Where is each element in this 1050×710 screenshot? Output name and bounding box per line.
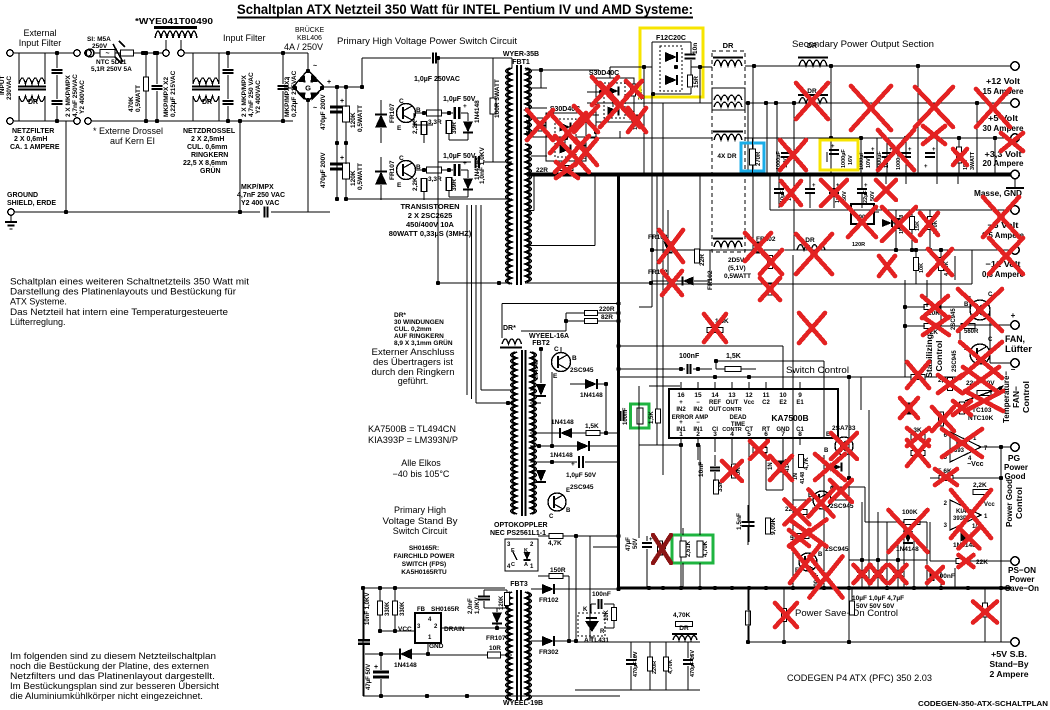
wire: [940, 271, 942, 284]
svg-text:2SC945: 2SC945: [952, 350, 958, 372]
wire: [699, 174, 701, 250]
svg-text:0,5WATT: 0,5WATT: [724, 273, 751, 280]
wire: [423, 135, 425, 143]
wire: [587, 91, 599, 93]
resistor: [782, 609, 787, 622]
wire: [687, 666, 689, 690]
junction: [155, 119, 159, 123]
resistor: [911, 451, 925, 456]
wire: [336, 143, 338, 162]
junction: [616, 344, 620, 348]
svg-text:450/400V 10A: 450/400V 10A: [406, 220, 455, 229]
wire: [984, 588, 986, 603]
diode: [375, 172, 387, 185]
wire: [536, 395, 546, 397]
svg-text:C2: C2: [762, 400, 770, 406]
wire: [897, 577, 899, 588]
svg-text:FR107: FR107: [389, 103, 396, 123]
junction: [999, 586, 1003, 590]
resistor: [695, 249, 700, 263]
svg-text:TRANSISTOREN: TRANSISTOREN: [400, 202, 459, 211]
connector circle: [74, 50, 80, 56]
junction: [447, 111, 451, 115]
wire: [56, 53, 58, 68]
junction: [993, 136, 997, 140]
junction: [647, 586, 651, 590]
wire: [841, 448, 850, 453]
wire: [714, 472, 716, 481]
junction: [747, 586, 751, 590]
wire: [799, 438, 801, 445]
output terminal: [1011, 206, 1019, 214]
svg-text:150R: 150R: [550, 567, 566, 574]
svg-text:100nF: 100nF: [592, 591, 611, 598]
resistor: [983, 603, 988, 617]
output terminal: [1011, 321, 1019, 329]
wire: [841, 463, 843, 472]
svg-text:0,22µF 215VAC: 0,22µF 215VAC: [170, 70, 177, 117]
wire: [639, 91, 652, 93]
wire: [10, 215, 12, 222]
wire: [656, 307, 658, 318]
red X deletion mark: [574, 106, 598, 132]
junction: [822, 586, 826, 590]
svg-text:noch die Bestückung der Platin: noch die Bestückung der Platine, des ext…: [10, 661, 209, 671]
red X deletion mark: [600, 83, 640, 127]
junction: [885, 586, 889, 590]
wire: [610, 66, 620, 68]
electrolytic capacitor: [893, 572, 903, 576]
junction: [335, 85, 339, 89]
wire: [868, 530, 870, 588]
svg-text:2 X 2,5mH: 2 X 2,5mH: [191, 136, 224, 143]
wire: [903, 542, 913, 544]
wire: [752, 138, 754, 149]
resistor: [688, 75, 693, 87]
resistor: [939, 258, 944, 271]
svg-text:100nF: 100nF: [679, 353, 700, 360]
svg-text:Y2 400VAC: Y2 400VAC: [79, 80, 86, 114]
red X deletion mark: [785, 500, 810, 525]
svg-text:50V 50V 50V: 50V 50V 50V: [856, 603, 895, 610]
junction: [747, 375, 751, 379]
svg-text:2 X MKP/MPX: 2 X MKP/MPX: [241, 74, 248, 117]
svg-text:Externer Anschluss: Externer Anschluss: [372, 347, 456, 357]
svg-text:Y2 400 VAC: Y2 400 VAC: [241, 200, 279, 207]
component box: [415, 613, 441, 643]
wire: [778, 174, 780, 189]
red X deletion mark: [722, 461, 742, 481]
wire: [554, 495, 563, 500]
wire: [639, 66, 712, 68]
wire: [8, 225, 15, 227]
svg-text:CODEGEN-350-ATX-SCHALTPLAN: CODEGEN-350-ATX-SCHALTPLAN: [918, 701, 1048, 708]
wire: [809, 193, 811, 208]
wire: [731, 445, 733, 463]
wire: [831, 486, 865, 488]
svg-text:1N4148: 1N4148: [580, 392, 603, 399]
red X deletion mark: [976, 89, 1010, 127]
svg-text:10V: 10V: [866, 158, 872, 168]
wire: [709, 250, 711, 281]
svg-text:Primary High Voltage Power Swi: Primary High Voltage Power Switch Circui…: [337, 36, 518, 46]
wire: [977, 356, 986, 361]
wire: [271, 211, 330, 213]
red X deletion mark: [780, 140, 806, 170]
wire: [783, 588, 785, 609]
wire: [940, 568, 942, 588]
svg-text:A TL431: A TL431: [584, 637, 609, 644]
wire: [564, 132, 566, 145]
component box: [660, 46, 682, 91]
wire: [971, 250, 973, 284]
wire: [769, 174, 771, 210]
junction: [226, 119, 230, 123]
svg-text:GROUND: GROUND: [7, 192, 38, 199]
svg-text:1,5K: 1,5K: [585, 423, 599, 430]
svg-text:100R 3WATT: 100R 3WATT: [494, 79, 501, 118]
red X deletion mark: [810, 557, 843, 598]
wire: [466, 205, 468, 395]
junction: [616, 367, 620, 371]
wire: [895, 228, 897, 250]
wire: [572, 432, 586, 434]
red X deletion mark: [555, 136, 589, 172]
wire: [957, 174, 959, 184]
junction: [379, 652, 383, 656]
wire: [649, 642, 651, 657]
wire: [755, 361, 757, 369]
junction: [698, 65, 702, 69]
capacitor: [598, 599, 601, 609]
svg-text:80WATT 0,33µS (3MHZ): 80WATT 0,33µS (3MHZ): [389, 229, 472, 238]
wire: [690, 42, 692, 54]
svg-text:IN2: IN2: [676, 407, 686, 413]
wire: [619, 345, 784, 347]
wire: [530, 389, 536, 391]
capacitor: [358, 640, 370, 644]
resistor: [928, 217, 933, 230]
wire: [380, 630, 416, 632]
junction: [661, 586, 665, 590]
red X deletion mark: [653, 535, 671, 563]
wire: [793, 174, 795, 250]
wire: [892, 227, 900, 229]
wire: [680, 445, 682, 588]
wire: [869, 521, 904, 523]
red X deletion mark: [821, 180, 847, 206]
electrolytic capacitor: [925, 153, 935, 157]
wire: [613, 604, 615, 608]
wire: [930, 560, 941, 562]
svg-text:CA. 1 AMPERE: CA. 1 AMPERE: [10, 144, 60, 151]
svg-text:DR: DR: [807, 43, 817, 50]
wire: [506, 606, 508, 608]
wire: [693, 368, 712, 370]
svg-text:−Vcc: −Vcc: [967, 461, 984, 468]
red X deletion mark: [1001, 133, 1023, 151]
svg-text:4X DR: 4X DR: [717, 153, 736, 160]
svg-text:FR102: FR102: [707, 270, 714, 290]
inductor coil: [799, 98, 827, 104]
junction: [791, 586, 795, 590]
wire: [239, 121, 241, 212]
junction: [564, 136, 568, 140]
wire: [475, 205, 477, 403]
wire: [752, 174, 754, 250]
wire: [903, 530, 905, 560]
capacitor: [687, 364, 690, 374]
junction: [894, 248, 898, 252]
connector circle: [7, 50, 13, 56]
svg-text:FBT3: FBT3: [510, 581, 528, 588]
wire: [375, 114, 387, 116]
wire: [975, 560, 1011, 562]
capacitor: [710, 467, 720, 470]
svg-text:RINGKERN: RINGKERN: [191, 152, 228, 159]
resistor: [766, 518, 771, 534]
diode: [882, 219, 892, 227]
resistor: [559, 166, 573, 171]
svg-text:1,5K: 1,5K: [649, 411, 655, 424]
red X deletion mark: [745, 233, 771, 261]
inductor coil: [714, 95, 742, 100]
resistor: [768, 283, 773, 295]
junction: [847, 586, 851, 590]
red X deletion mark: [790, 520, 827, 547]
svg-text:+: +: [932, 147, 936, 153]
wire: [970, 560, 1001, 562]
wire: [525, 107, 547, 109]
svg-text:DR: DR: [28, 99, 38, 106]
svg-text:FAN,: FAN,: [1005, 334, 1025, 344]
wire: [423, 192, 425, 200]
svg-text:FBT1: FBT1: [512, 59, 530, 66]
wire: [560, 347, 562, 353]
svg-text:DR: DR: [202, 99, 212, 106]
svg-text:NTC 5D11: NTC 5D11: [96, 59, 127, 66]
diode: [905, 403, 914, 414]
wire: [399, 649, 401, 660]
wire: [565, 313, 567, 331]
svg-text:des Übertragers ist: des Übertragers ist: [373, 357, 454, 367]
resistor: [421, 122, 427, 135]
junction: [567, 639, 571, 643]
wire: [538, 575, 549, 577]
wire: [598, 320, 618, 322]
red X deletion mark: [750, 441, 768, 459]
svg-text:OPTOKOPPLER: OPTOKOPPLER: [494, 522, 548, 529]
junction: [238, 119, 242, 123]
yellow highlight box: [640, 28, 703, 97]
wire: [911, 230, 913, 250]
wire: [554, 640, 577, 642]
wire: [864, 487, 866, 522]
capacitor: [433, 53, 436, 64]
wire: [630, 666, 632, 690]
wire: [990, 362, 1011, 364]
red X deletion mark: [953, 401, 971, 415]
red X deletion mark: [527, 110, 553, 140]
svg-text:FBT2: FBT2: [532, 340, 550, 347]
junction: [55, 119, 59, 123]
junction: [916, 64, 920, 68]
svg-text:DR: DR: [679, 625, 689, 632]
wire: [715, 361, 717, 369]
wire: [500, 346, 522, 348]
wire: [646, 536, 648, 541]
wire: [330, 111, 345, 114]
wire: [940, 250, 942, 258]
svg-text:DEAD: DEAD: [729, 415, 747, 421]
wire: [403, 172, 412, 177]
connector circle: [163, 50, 169, 56]
wire: [483, 161, 512, 163]
junction: [649, 281, 653, 285]
junction: [752, 64, 756, 68]
wire: [941, 560, 956, 562]
wire: [237, 17, 693, 19]
wire: [156, 91, 158, 121]
red X deletion mark: [799, 313, 825, 343]
red X deletion mark: [704, 314, 726, 342]
wire: [227, 75, 229, 99]
wire: [793, 103, 795, 174]
capacitor: [577, 143, 586, 146]
wire: [438, 161, 471, 163]
wire: [609, 67, 611, 78]
junction: [141, 51, 145, 55]
wire: [687, 642, 689, 658]
svg-text:CONTR: CONTR: [722, 427, 742, 433]
wire: [765, 445, 767, 455]
svg-text:4A / 250V: 4A / 250V: [284, 42, 323, 52]
svg-text:(5,1V): (5,1V): [728, 265, 746, 272]
junction: [930, 172, 934, 176]
diode: [585, 379, 597, 389]
inductor coil: [799, 60, 827, 66]
wire: [639, 114, 644, 116]
wire: [346, 198, 512, 200]
wire: [530, 461, 577, 463]
svg-text:Save−On: Save−On: [1005, 583, 1039, 593]
svg-text:Im Bestückungsplan sind zur be: Im Bestückungsplan sind zur besseren Übe…: [10, 681, 220, 691]
junction: [550, 460, 554, 464]
resistor: [939, 476, 953, 481]
electrolytic capacitor: [901, 153, 911, 157]
inductor coil: [673, 636, 697, 641]
wire: [926, 522, 928, 542]
red X deletion mark: [927, 567, 943, 583]
junction: [650, 248, 654, 252]
svg-text:+: +: [831, 144, 835, 150]
resistor: [768, 256, 773, 269]
junction: [751, 172, 755, 176]
red X deletion mark: [960, 342, 1002, 378]
svg-text:ATX Systeme.: ATX Systeme.: [10, 297, 67, 307]
wire: [192, 86, 220, 88]
wire: [676, 52, 678, 62]
component box: [546, 113, 586, 161]
wire: [652, 41, 691, 43]
junction: [957, 172, 961, 176]
capacitor: [455, 107, 460, 119]
svg-text:120R: 120R: [852, 242, 865, 248]
svg-text:+: +: [924, 164, 928, 170]
wire: [448, 191, 450, 197]
svg-text:DR*: DR*: [394, 312, 406, 319]
svg-text:Im folgenden sind zu diesem Ne: Im folgenden sind zu diesem Netzteilscha…: [10, 651, 216, 661]
red X deletion mark: [923, 126, 945, 144]
wire: [903, 560, 905, 588]
svg-text:330K: 330K: [385, 601, 391, 616]
wire: [449, 139, 468, 141]
junction: [939, 248, 943, 252]
resistor: [676, 622, 693, 627]
wire: [467, 133, 469, 140]
inductor coil: [714, 134, 742, 140]
svg-text:Lüfter: Lüfter: [1005, 344, 1033, 354]
diode: [777, 461, 786, 472]
wire: [91, 120, 293, 122]
resistor: [799, 455, 804, 468]
wire: [538, 535, 549, 537]
wire: [861, 502, 863, 545]
svg-text:9: 9: [798, 392, 802, 399]
svg-text:E: E: [397, 182, 402, 189]
resistor: [957, 147, 962, 163]
wire: [940, 280, 942, 326]
output terminal: [1011, 134, 1019, 142]
wire: [596, 379, 598, 389]
wire: [18, 89, 46, 91]
junction: [320, 86, 324, 90]
junction: [144, 51, 148, 55]
resistor: [427, 110, 442, 116]
resistor: [490, 98, 496, 114]
wire: [563, 575, 569, 577]
wire: [600, 432, 618, 434]
junction: [642, 172, 646, 176]
svg-text:+12 Volt: +12 Volt: [986, 76, 1020, 86]
wire: [823, 455, 825, 490]
svg-text:RT: RT: [762, 427, 770, 433]
junction: [861, 172, 865, 176]
red X deletion mark: [928, 249, 952, 275]
electrolytic capacitor: [774, 189, 784, 193]
svg-text:REF: REF: [709, 400, 721, 406]
junction: [935, 172, 939, 176]
svg-text:Control: Control: [934, 341, 944, 372]
wire: [798, 56, 828, 58]
svg-text:GND: GND: [776, 427, 790, 433]
capacitor: [538, 123, 547, 126]
wire: [530, 402, 541, 404]
wire: [362, 588, 364, 696]
junction: [928, 248, 932, 252]
wire: [748, 438, 750, 445]
wire: [697, 438, 699, 445]
svg-text:100K: 100K: [902, 509, 918, 516]
junction: [281, 119, 285, 123]
resistor: [914, 258, 919, 271]
wire: [379, 588, 381, 601]
svg-text:WYEEL-19B: WYEEL-19B: [503, 700, 543, 707]
wire: [618, 107, 620, 116]
svg-text:C: C: [399, 155, 404, 162]
resistor: [732, 464, 737, 478]
junction: [714, 359, 718, 363]
